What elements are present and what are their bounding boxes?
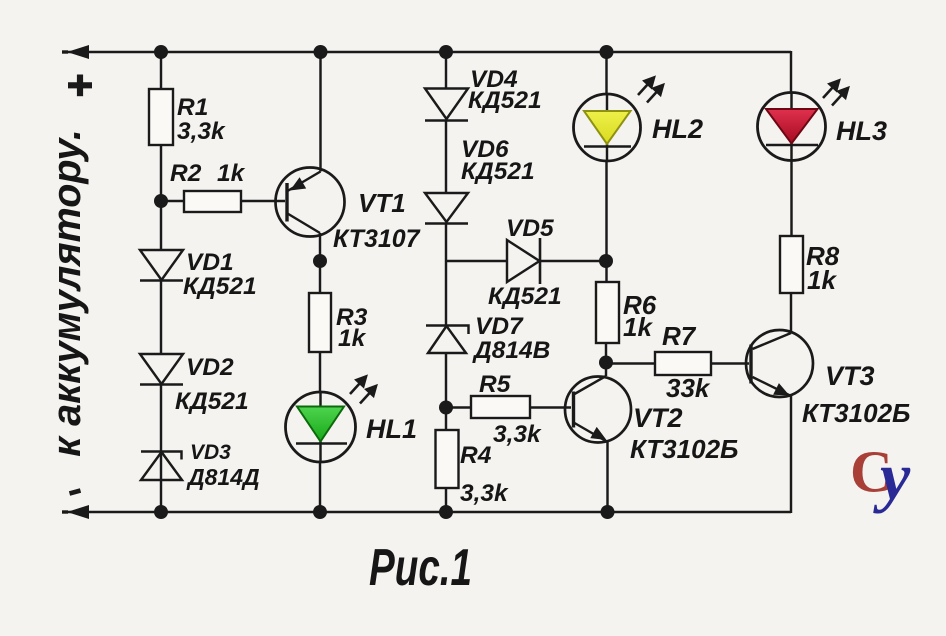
node VT1 collector / R3: [313, 254, 327, 268]
HL2 light arrows: [638, 78, 663, 103]
node rail-R1: [154, 45, 168, 59]
wire left column top (rail to R1): [160, 52, 162, 89]
svg-text:КД521: КД521: [183, 273, 257, 300]
resistor R3: [319, 261, 321, 293]
wire HL1 to bottom rail: [319, 462, 321, 512]
node R2 tap: [154, 194, 168, 208]
node rail-VT1: [314, 45, 328, 59]
svg-text:КТ3102Б: КТ3102Б: [630, 434, 738, 464]
transistor VT3: [746, 330, 813, 397]
diode VD4: [425, 89, 468, 121]
svg-text:3,3k: 3,3k: [177, 118, 226, 145]
wire VD2 to VD3: [160, 384, 162, 480]
wire VT3 collector to R8: [790, 293, 792, 333]
node R6/R7/VT2 collector: [599, 356, 613, 370]
wire VT2 emitter to bottom rail: [606, 442, 608, 512]
svg-text:R1: R1: [177, 94, 208, 121]
svg-text:Д814В: Д814В: [472, 337, 550, 364]
node HL1 bottom: [313, 505, 327, 519]
svg-text:R2: R2: [170, 160, 202, 187]
arrow top-left to battery plus: [67, 45, 89, 59]
wire R1 to VD1: [160, 145, 162, 250]
svg-text:3,3k: 3,3k: [493, 421, 542, 448]
resistor R8: [780, 236, 803, 293]
LED HL2: [574, 94, 641, 161]
wire R6 to node: [605, 343, 607, 363]
LED HL1: [286, 392, 356, 462]
resistor R6: [596, 282, 619, 343]
wire mid column top (rail to VD4): [445, 52, 447, 89]
wire VT2 base to R5: [530, 406, 571, 408]
diode VD1: [140, 250, 183, 281]
wire VT3 emitter to bottom rail corner: [790, 396, 792, 513]
svg-text:VT1: VT1: [358, 188, 406, 218]
svg-text:Рис.1: Рис.1: [369, 539, 472, 597]
svg-text:VT2: VT2: [633, 403, 683, 433]
svg-text:VD1: VD1: [186, 249, 234, 276]
wire VT1 emitter to top rail: [319, 52, 321, 172]
svg-text:1k: 1k: [807, 265, 837, 295]
wire VD7 to R4 node: [445, 353, 447, 430]
svg-text:1k: 1k: [623, 312, 653, 342]
plus sign: [68, 82, 92, 88]
resistor R4: [436, 430, 459, 488]
svg-text:VD5: VD5: [506, 215, 554, 242]
wire HL2 to R6: [605, 161, 607, 282]
wire VD5 to HL2 column: [540, 260, 606, 262]
svg-text:КД521: КД521: [468, 87, 542, 114]
svg-text:КТ3102Б: КТ3102Б: [802, 398, 910, 428]
svg-text:КД521: КД521: [488, 283, 562, 310]
wire VD4 to VD6: [445, 121, 447, 194]
diode VD2: [140, 354, 183, 385]
node VT2 emitter bottom: [601, 505, 615, 519]
svg-text:VD3: VD3: [190, 441, 231, 464]
svg-text:КД521: КД521: [461, 158, 535, 185]
HL3 light arrows: [823, 81, 848, 106]
node R4 bottom: [439, 505, 453, 519]
LED HL3: [758, 93, 826, 161]
svg-text:HL3: HL3: [836, 116, 887, 146]
wire R2 to VT1 base: [241, 200, 285, 202]
resistor R7: [606, 362, 655, 364]
wire VT1 collector down: [319, 233, 321, 261]
wire VD5 branch left: [446, 260, 507, 262]
svg-text:к аккумулятору.: к аккумулятору.: [45, 129, 89, 457]
wire rail to HL2: [605, 52, 607, 95]
wire VD6 to VD7: [445, 224, 447, 327]
svg-text:1k: 1k: [338, 325, 367, 352]
svg-text:1k: 1k: [217, 160, 246, 187]
svg-text:КТ3107: КТ3107: [333, 225, 421, 253]
wire R7 to VT3 base: [711, 362, 749, 364]
arrow bottom-left to battery minus: [67, 505, 89, 519]
node left bottom: [154, 505, 168, 519]
wire R4 to bottom rail: [445, 488, 447, 512]
zener VD3: [141, 452, 182, 481]
zener VD7: [426, 326, 469, 354]
node HL2/VD5/R6: [599, 254, 613, 268]
svg-text:VD7: VD7: [475, 313, 524, 340]
transistor VT2: [565, 377, 631, 443]
wire top supply rail: [66, 51, 791, 53]
wire R3 to HL1: [319, 352, 321, 392]
wire VD3 to bottom rail: [160, 480, 162, 512]
transistor VT1: [276, 168, 345, 237]
wire HL3 to R8: [790, 160, 792, 236]
svg-text:HL1: HL1: [366, 414, 417, 444]
svg-text:33k: 33k: [666, 373, 711, 403]
node rail-HL2: [600, 45, 614, 59]
wire VD1 to VD2: [160, 280, 162, 354]
svg-text:КД521: КД521: [175, 388, 249, 415]
node R5/R4/VD7: [439, 401, 453, 415]
diode VD5: [507, 238, 540, 284]
HL1 light arrows: [350, 377, 376, 404]
minus sign: [70, 491, 81, 494]
diode VD6: [425, 193, 468, 224]
node rail-VD4: [439, 45, 453, 59]
wire VT2 collector up: [605, 363, 607, 377]
wire bottom supply rail: [66, 511, 791, 513]
svg-text:VD2: VD2: [186, 354, 234, 381]
svg-text:Д814Д: Д814Д: [186, 464, 260, 490]
svg-text:VT3: VT3: [825, 361, 875, 391]
svg-text:3,3k: 3,3k: [460, 480, 509, 507]
svg-text:R7: R7: [662, 321, 697, 351]
wire top rail corner to HL3: [790, 51, 792, 93]
resistor R2: [161, 200, 184, 202]
svg-text:HL2: HL2: [652, 114, 703, 144]
resistor R5: [446, 406, 471, 408]
svg-text:R4: R4: [460, 442, 492, 469]
resistor R1: [149, 89, 173, 145]
svg-text:R5: R5: [479, 371, 511, 398]
